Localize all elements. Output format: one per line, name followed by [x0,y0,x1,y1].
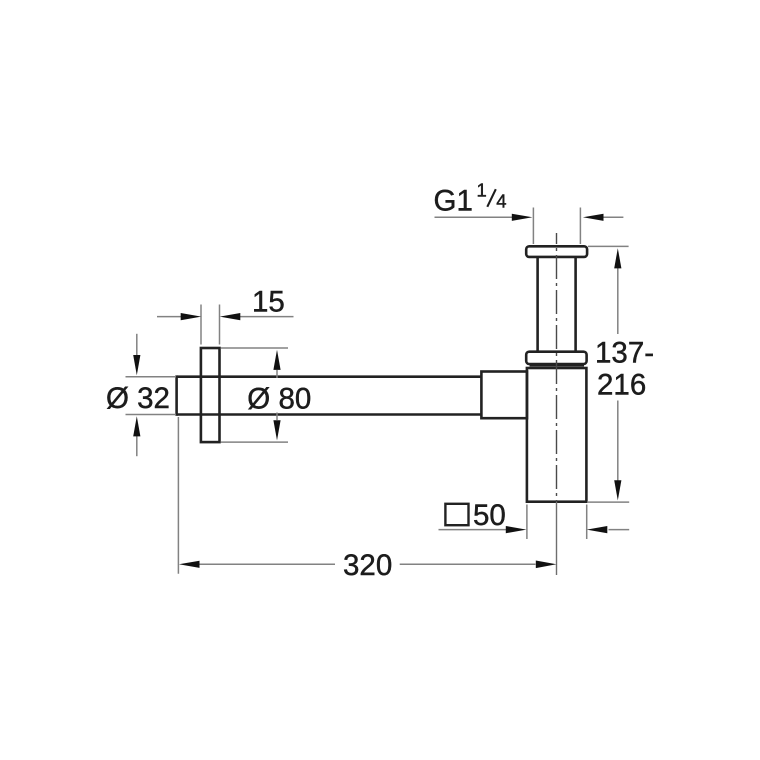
wire dia32 reference line bottom [126,414,177,416]
arrow G left (pointing right) [512,214,533,221]
wire 137 dim line lower segment [617,401,619,482]
wire 15 dim line right segment [240,316,294,318]
wire dia32 bottom arrow stem [136,435,138,457]
wall flange rectangle [201,348,220,442]
wire 50 extension line left [526,505,528,540]
wire horizontal inlet pipe bottom edge [177,413,482,416]
wire 320 dim line left segment [199,563,336,565]
arrow dia80 bottom (pointing down) [273,420,280,440]
top flange nut [526,246,587,257]
svg-text:50: 50 [473,499,506,532]
svg-text:Ø 80: Ø 80 [247,382,311,415]
wire 137 reference line top [588,245,629,247]
label G1 1/4 [434,180,507,218]
dimension 137-216 [587,246,629,502]
wire vertical pipe left edge [536,257,539,352]
dimension G1 1/4 [435,208,624,245]
wire G extension line left [532,208,534,245]
svg-text:4: 4 [496,191,506,212]
arrow 50 right (pointing left) [587,526,608,533]
wire G dim line left segment [435,216,514,218]
arrow 320 left (pointing left) [179,561,200,568]
wire dia80 reference line top [221,347,288,349]
svg-text:137-: 137- [595,337,654,370]
wire vertical pipe right edge [574,257,577,352]
wire G dim line right segment [603,216,624,218]
dimension diameter 32 [126,334,177,456]
wire 50 extension line right [586,505,588,540]
wire dia32 top arrow stem [136,334,138,357]
seal ring under bottom flange [530,364,585,366]
wire 320 extension line left [177,417,179,574]
svg-text:G1: G1 [434,185,473,218]
arrow 15 left (pointing right) [181,313,202,320]
wire dia32 reference line top [126,376,177,378]
arrow dia32 bottom (pointing up) [133,416,140,436]
wire 320 dim line right segment [400,563,536,565]
dimension diameter 80 [221,348,288,442]
svg-text:15: 15 [252,286,285,319]
wire dia80 bottom arrow stem [276,413,278,421]
wire centerline extension below trap [556,502,558,575]
svg-text:320: 320 [343,549,392,582]
wire G extension line right [579,208,581,245]
wire dia80 top arrow stem [276,370,278,378]
arrow 137 bottom (pointing down) [614,480,621,500]
wire 15 extension line left [200,305,202,345]
svg-text:1: 1 [477,180,487,201]
dimension 15 [157,305,294,345]
arrow 50 left (pointing right) [506,526,527,533]
svg-text:216: 216 [597,369,646,402]
wire 137 reference line bottom [587,501,629,503]
trap body rectangle [527,368,587,502]
wire 15 extension line right [219,305,221,345]
svg-text:Ø 32: Ø 32 [106,382,170,415]
wire 50 leader line [439,529,508,531]
arrow 15 right (pointing left) [220,313,241,320]
arrow 320 right (pointing right) [536,561,557,569]
wire 50 right segment [609,529,630,531]
wire dia80 reference line bottom [221,441,288,443]
square symbol [445,504,468,525]
wire pipe left end cap [175,375,178,415]
connector block between pipe and trap [481,372,527,419]
dimension 320 [178,417,535,574]
wire horizontal inlet pipe top edge [177,375,482,378]
arrow 137 top (pointing up) [614,248,621,268]
arrow dia80 top (pointing up) [273,350,280,370]
arrow G right (pointing left) [583,214,604,221]
wire 137 dim line upper segment [617,267,619,334]
wire 15 dim line left segment [157,316,182,318]
bottom flange nut [526,352,586,364]
centerline of trap (dash-dot) [556,233,558,502]
arrow dia32 top (pointing down) [133,355,140,375]
